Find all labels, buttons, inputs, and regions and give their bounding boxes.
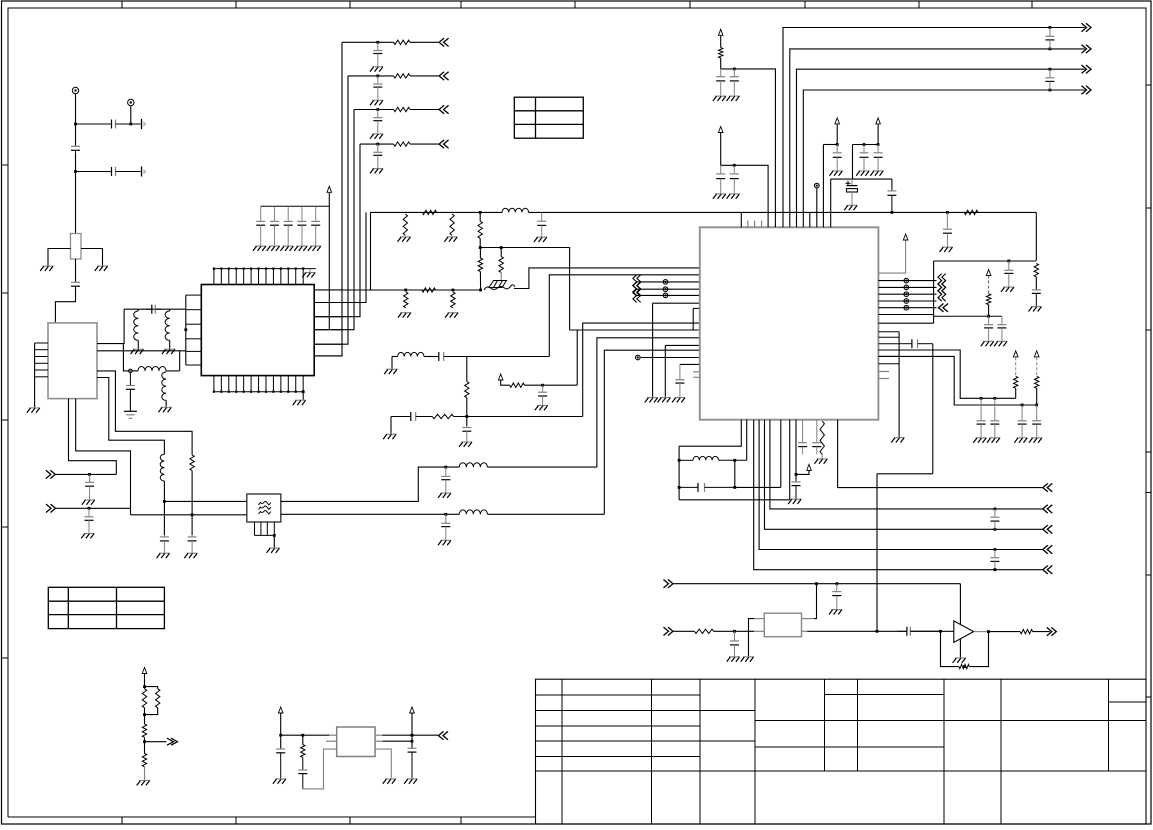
test point TP7 [904,299,909,304]
ground GND52 [137,781,150,786]
IC U3 right pins comb [878,332,899,364]
wire W103 [898,332,900,437]
wire W108 [746,420,748,461]
inductor L10 [693,456,719,460]
wire W58 [576,330,578,385]
wire W99 [878,293,936,295]
bus connector BX4 [938,274,946,288]
test point TP6 [904,292,909,297]
wire W70 [309,269,311,272]
ground GND20 [459,442,472,447]
resistor Rrow4 [394,142,410,146]
ground GND21 [383,434,396,439]
wire W48 [392,356,398,358]
ground GNDb5 [308,246,321,251]
capacitor C11 [441,467,450,492]
junction J51 [815,582,818,585]
wire W124 [941,631,960,666]
capacitor C7 [85,474,94,499]
capacitor Cb2 [270,206,279,245]
junction J16 [479,246,482,249]
wire W12 [55,288,75,323]
wire W63 [653,302,700,304]
test point TP1 [636,355,641,360]
IC U2 top pin dots [213,268,304,270]
capacitor Cb5 [311,206,320,245]
inductor L9 [398,352,424,356]
wire W40 [370,212,372,290]
ground GND10 [184,553,197,558]
IC U3 right gray pins [878,372,889,379]
capacitor C24 [1045,69,1054,90]
inductor L3 [138,367,166,371]
wire row3a [354,109,394,111]
wire W34 [273,535,275,547]
IC U3 left gray pins [693,372,700,378]
wire W132 [144,708,146,724]
junction J49 [994,568,997,571]
ground GNDrow2 [370,100,383,105]
wire dashed stem [1036,357,1038,376]
ground GND51 [953,658,966,663]
border zone ticks bottom [122,817,461,824]
wire W49 [424,356,439,358]
offpage connector X18 [439,731,449,739]
ground GND17 [398,313,411,318]
border inner bottom [8,816,536,818]
junction J9 [444,466,447,469]
wire W122 [807,630,906,632]
ground GND48 [829,610,842,615]
power symbol VCC11 [142,668,147,674]
wire W76 [720,58,722,69]
wire W55 [583,323,700,416]
filter FB1 bottom pins [255,522,275,535]
wire row3b [410,109,439,111]
capacitor C34 [997,316,1006,340]
wire net-vert877 [876,474,878,632]
offpage connector X3 [46,470,56,478]
wire W125 [969,632,988,667]
junction J25 [733,68,736,71]
wire W94 [933,316,935,323]
capacitor C37 [990,398,999,437]
bus connector BX1 [633,275,641,289]
resistor R9 [422,288,435,292]
ground GNDb4 [294,246,307,251]
capacitor C29 [887,188,896,212]
wire W5 [75,152,77,171]
resistor R24 [156,689,160,708]
ground GND22 [535,405,548,410]
ground GND50 [741,657,754,662]
wire net-pwr2 [721,165,768,227]
resistor R11 [465,382,469,398]
wire W56 [501,381,510,386]
capacitor C28 [847,179,858,205]
wire W95 [988,305,990,317]
resistor R6 [478,221,482,238]
capacitor C40 [679,483,735,492]
resistor R22 [1020,629,1032,633]
resistor R20 [694,629,713,633]
capacitor C17 [538,385,547,405]
ground GNDb2 [267,246,280,251]
wire W10 [81,249,103,266]
capacitor C41 [990,509,999,529]
border zone ticks right [1146,85,1151,697]
transformer T1 pins [326,735,383,741]
wire W109 [734,460,736,487]
wire W111 [780,420,782,488]
ground GND55 [383,779,396,784]
IC U2 top pins [214,269,303,285]
wire W140 [411,714,413,748]
resistor R23 [142,689,146,708]
wire W84 [831,178,892,180]
wire W138 [302,735,304,744]
offpage connector X14 [1043,566,1053,574]
wire net-416 [454,416,583,418]
connector circle J2 [128,99,134,105]
capacitor C5 [146,305,161,314]
wire W79 [823,144,837,146]
wire wireA2 [487,466,597,468]
junction J15 [479,211,482,214]
wire W62 [680,363,700,365]
inductor L7 [459,510,487,514]
power symbol VCC8 [1013,351,1018,357]
wire W27 [97,378,164,455]
offpage connector X9 [939,304,949,312]
wire coil line [679,459,747,461]
capacitor C27 [874,145,883,171]
inductor L8 [502,208,528,212]
wire W102 [878,314,933,316]
wire W128 [1033,631,1050,633]
resistor R21 [959,664,969,668]
capacitor C36 [977,398,986,437]
capacitor C23 [1045,28,1054,49]
wire long5 [754,420,1043,570]
junction J39 [993,397,996,400]
wire W120 [714,630,755,632]
wire bus3 [797,69,1085,227]
wire W19 [169,340,171,348]
wire W98 [878,286,936,288]
capacitor C22 [730,165,739,193]
ground GND19 [384,369,397,374]
wire bus2 [790,49,1085,227]
power symbol VCC2 [327,186,332,192]
wire W91 [1035,277,1037,289]
wire W89 [740,212,742,227]
wire W50 [444,356,550,358]
junction J38 [980,397,983,400]
IC U2 bottom pin dots [213,391,304,393]
ground GNDb3 [280,246,293,251]
rail 316 [934,315,1002,317]
resistor R25 [142,724,146,737]
power symbol VCC5 [835,118,840,124]
junction J14 [376,143,379,146]
ground GND44 [1014,438,1027,443]
ground GND5 [162,349,175,354]
resistor R12 [432,414,453,418]
border zone ticks top [122,1,1032,8]
wire W119 [673,630,694,632]
ground GND14 [398,237,411,242]
junction J64 [411,734,414,737]
cap bank rail [261,205,330,207]
wire W104 [1015,388,1017,398]
junction J32 [863,143,866,146]
wire W136 [280,714,282,749]
wire W78 [836,124,838,144]
ground GND1 [40,266,53,271]
offpage connector X17 [1047,627,1057,635]
wire W115 [795,420,797,481]
ground GND13 [438,540,451,545]
wire W72 [185,295,187,365]
wire W53 [390,417,392,434]
wire bus1 [783,28,1085,228]
wire W131 [145,708,158,715]
IC U3 [700,227,879,419]
capacitor C20 [730,69,739,96]
wire W93 [878,322,933,324]
test point TP2 [815,183,820,188]
junction J53 [994,568,997,571]
wire W100 [878,300,936,302]
ground GND37 [1001,287,1014,292]
transformer T1 [337,727,375,757]
junction J60 [143,713,146,716]
wire W129 [144,674,146,689]
wire W116 [796,471,809,475]
capacitor C8 [85,508,94,533]
wire W1 [75,94,77,145]
resistor R4 [422,210,436,214]
junction J24 [184,328,187,331]
wire rail212b [529,211,1037,213]
bus connector BX6 [938,287,946,301]
wire W24 [165,400,167,406]
wire long4 [759,420,1043,550]
junction J35 [946,211,949,214]
wire W133 [144,737,146,753]
junction J61 [143,740,146,743]
wire W112 [679,499,790,501]
capacitor C16 [391,412,432,421]
wire net247 [480,248,569,331]
offpage connector X13 [1043,545,1053,553]
capacitor C1 [110,120,127,129]
junction J13 [376,108,379,111]
junction J62 [279,734,282,737]
resistor R1 [71,234,82,260]
wire wireB2 [487,513,604,515]
capacitor C45 [792,480,801,498]
wire net-337 [597,338,700,467]
resistor R16 [1034,264,1038,277]
inductor L1 [134,311,139,340]
wire W123 [910,630,954,632]
junction J59 [143,685,146,688]
ground GND7 [82,500,95,505]
earth ground E1 [124,411,137,418]
test point TP4 [904,278,909,283]
offpage connector X4 [46,504,56,512]
test point TP2 [663,287,668,292]
resistor R14 [719,48,723,58]
offpage connector Xrow3 [439,105,449,113]
wire W82 [853,144,879,146]
capacitor C30 [943,212,952,246]
wire rail212 [371,211,503,213]
wire long2 [770,420,1043,509]
wire W14 [97,309,124,343]
test point TP3 [663,293,668,298]
wire W59 [665,344,700,346]
ground GND26 [302,273,315,278]
IC U2 right pins [314,290,342,356]
junction J63 [301,734,304,737]
junction J12 [376,75,379,78]
ground GND47 [788,499,801,504]
ground GNDrow3 [370,134,383,139]
wire W117 [877,473,933,475]
wire net-t1o [383,734,439,736]
junction J18 [404,289,407,292]
wire W86 [891,179,893,188]
wire W57 [525,384,578,386]
node ring [129,369,133,373]
ground GND27 [293,400,306,405]
offpage connector Xrow4 [439,140,449,148]
ground GND2 [95,266,108,271]
power symbol VCC12 [278,707,283,713]
wire W41 [479,214,481,221]
inductor L2 [165,311,170,340]
wire net-583 [673,583,960,585]
power symbol VCC7 [903,234,908,240]
wire W38 [314,144,360,317]
ground GND33 [856,171,869,176]
wire W60 [664,345,666,396]
junction J48 [994,548,997,551]
junction J45 [733,486,736,489]
wire W33 [191,471,193,536]
wire W52 [466,398,468,426]
test point TP1 [663,280,668,285]
test point TP5 [904,285,909,290]
capacitor C46 [832,584,841,609]
junction J41 [1035,404,1038,407]
resistor R27 [301,745,305,758]
wire W110 [735,486,781,488]
ground GND28 [713,96,726,101]
wire W26 [97,371,192,455]
power symbol VCC1 [498,374,503,380]
ground GND41 [891,438,904,443]
wire W37 [314,110,354,330]
ground GND30 [713,194,726,199]
offpage connector X6 [1082,45,1092,53]
wire W29 [76,399,131,515]
wire long1 [838,420,1043,488]
wire net-261 [934,260,1037,262]
resistor R5 [450,214,454,235]
junction J3 [74,170,77,173]
junction J22 [541,384,544,387]
ground GND42 [973,438,986,443]
resistor R3 [403,214,407,235]
wire W97 [878,280,936,282]
wire W87 [816,189,818,228]
ground GND29 [727,96,740,101]
IC U2 left pins [186,295,202,365]
wire dashed stem [988,276,990,294]
wire row2a [348,75,394,77]
wire net-xo [514,268,700,289]
capacitor C3 [110,167,127,176]
wire net-356r [878,356,1036,405]
wire W6 [76,171,111,173]
wire W30 [55,473,116,475]
resistor R10 [451,292,455,308]
ground GND25 [645,398,658,403]
test point TP8 [904,305,909,310]
wire W4 [116,123,141,125]
power symbol VCC14 [986,270,991,276]
wire W74 [328,193,330,207]
wire W73 [328,206,330,329]
ground GND39 [981,341,994,346]
wire W64 [652,303,654,397]
inductor L6 [459,463,487,467]
filter FB1 [247,494,281,522]
IC U1 [48,323,97,399]
capacitor C4 [71,281,80,288]
wire W71 [302,392,304,400]
wire W42 [479,238,481,247]
junction J4 [88,473,91,476]
wire W22 [130,370,138,372]
ground GND16 [534,237,547,242]
wire W20 [97,350,186,352]
capacitor C35 [899,339,933,348]
junction J2 [129,123,132,126]
wire W67 [637,281,700,283]
capacitor Crow1 [373,42,382,66]
wire W142 [375,749,391,778]
wire W107 [678,446,680,500]
wire W105 [1036,388,1038,405]
wire W28 [69,399,117,475]
border zone ticks left [2,165,9,658]
wire W61 [641,357,700,359]
capacitor C42 [990,550,999,570]
wire W126 [974,631,989,633]
offpage connector X10 [1043,483,1053,491]
IC U2 bottom pins [214,376,303,392]
resistor Rrow1 [394,40,410,44]
resistor R13 [510,383,525,387]
ground GND12 [438,493,451,498]
IC U2 top rail [213,268,315,270]
output connector X1 [142,119,147,129]
